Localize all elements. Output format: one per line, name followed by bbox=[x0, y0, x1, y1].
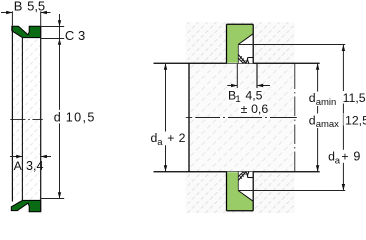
svg-text:a: a bbox=[335, 155, 341, 166]
svg-text:0,6: 0,6 bbox=[251, 102, 268, 116]
svg-text:2: 2 bbox=[179, 131, 186, 145]
svg-text:amin: amin bbox=[316, 97, 337, 108]
svg-text:12,5: 12,5 bbox=[345, 113, 366, 127]
svg-text:d: d bbox=[54, 111, 61, 125]
svg-text:a: a bbox=[157, 137, 163, 148]
svg-text:amax: amax bbox=[316, 119, 339, 130]
svg-text:3,4: 3,4 bbox=[26, 159, 44, 173]
svg-text:+: + bbox=[341, 150, 348, 164]
svg-text:5,5: 5,5 bbox=[27, 0, 45, 13]
svg-text:3: 3 bbox=[78, 28, 85, 43]
svg-text:B: B bbox=[14, 0, 23, 13]
svg-text:d: d bbox=[309, 113, 316, 127]
svg-text:C: C bbox=[65, 28, 74, 43]
svg-text:11,5: 11,5 bbox=[343, 91, 366, 105]
svg-text:A: A bbox=[14, 159, 23, 173]
svg-text:+: + bbox=[167, 131, 174, 145]
svg-text:4,5: 4,5 bbox=[245, 88, 262, 102]
svg-text:d: d bbox=[309, 91, 316, 105]
svg-text:9: 9 bbox=[353, 150, 360, 164]
svg-text:±: ± bbox=[241, 102, 248, 116]
svg-text:10,5: 10,5 bbox=[66, 111, 96, 125]
